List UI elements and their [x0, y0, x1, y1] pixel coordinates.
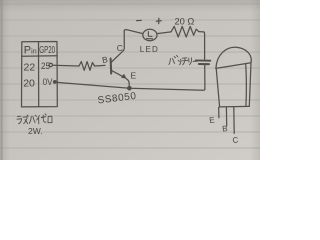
svg-text:C: C: [117, 43, 123, 53]
svg-text:B: B: [222, 124, 228, 134]
package dome: [216, 47, 251, 68]
wire resistor to corner: [199, 32, 205, 60]
wire collector up: [123, 31, 126, 51]
leg B: [225, 107, 227, 126]
transistor Q1 collector stroke: [111, 50, 124, 62]
page edge line: [1, 0, 3, 160]
table divider vertical: [38, 42, 40, 107]
leg E: [218, 107, 220, 118]
svg-text:C: C: [232, 135, 239, 145]
resistor R1 base zigzag: [79, 62, 95, 71]
wire resistor to base: [95, 64, 105, 67]
pinout table box: [22, 42, 58, 107]
wire base from table to resistor: [53, 64, 79, 67]
package inner edge line: [245, 64, 248, 107]
pin 25 circle: [49, 63, 52, 66]
plus sign: [156, 18, 161, 23]
svg-text:GP20: GP20: [39, 43, 55, 55]
package right outer edge: [249, 61, 251, 106]
package left edge: [216, 68, 219, 107]
svg-text:20 Ω: 20 Ω: [175, 17, 195, 27]
leg C: [233, 107, 235, 133]
LED letter L inside: [147, 32, 153, 39]
package bottom: [220, 105, 250, 108]
wire battery down to rail: [204, 65, 206, 90]
wire LED to resistor: [157, 32, 171, 34]
wire top from collector to LED: [124, 30, 143, 34]
svg-text:25: 25: [41, 60, 50, 71]
pin 0V dot: [54, 81, 57, 84]
transistor Q1 base bar: [110, 59, 113, 74]
label battery katakana (hand strokes): [169, 56, 198, 65]
table divider horizontal: [22, 55, 57, 57]
emitter arrowhead: [122, 74, 126, 78]
svg-text:22: 22: [24, 62, 36, 74]
svg-text:2W.: 2W.: [28, 126, 43, 136]
svg-text:E: E: [131, 71, 137, 81]
minus sign: [137, 19, 142, 21]
resistor R2 20ohm zigzag: [171, 26, 199, 37]
package brim: [216, 63, 251, 69]
svg-text:20: 20: [23, 78, 35, 90]
transistor Q1 emitter stroke: [111, 70, 125, 78]
wire emitter down to rail: [126, 79, 129, 88]
LED D1 circle: [143, 29, 157, 40]
svg-text:E: E: [209, 115, 215, 125]
battery BT1 top bar: [196, 59, 211, 61]
handwriting texts: [23, 17, 239, 145]
TO-92 package drawing: [216, 47, 251, 133]
label raspberry pi zero katakana (hand strokes): [17, 114, 52, 124]
lighting shadows: [0, 0, 260, 12]
junction node dot: [128, 87, 131, 90]
ruled lines: [0, 4, 260, 148]
paper background: [0, 0, 260, 160]
wire bottom rail: [55, 82, 205, 90]
svg-text:LED: LED: [140, 45, 159, 54]
battery BT1 bottom bar: [199, 63, 209, 65]
svg-text:0V: 0V: [43, 76, 53, 87]
